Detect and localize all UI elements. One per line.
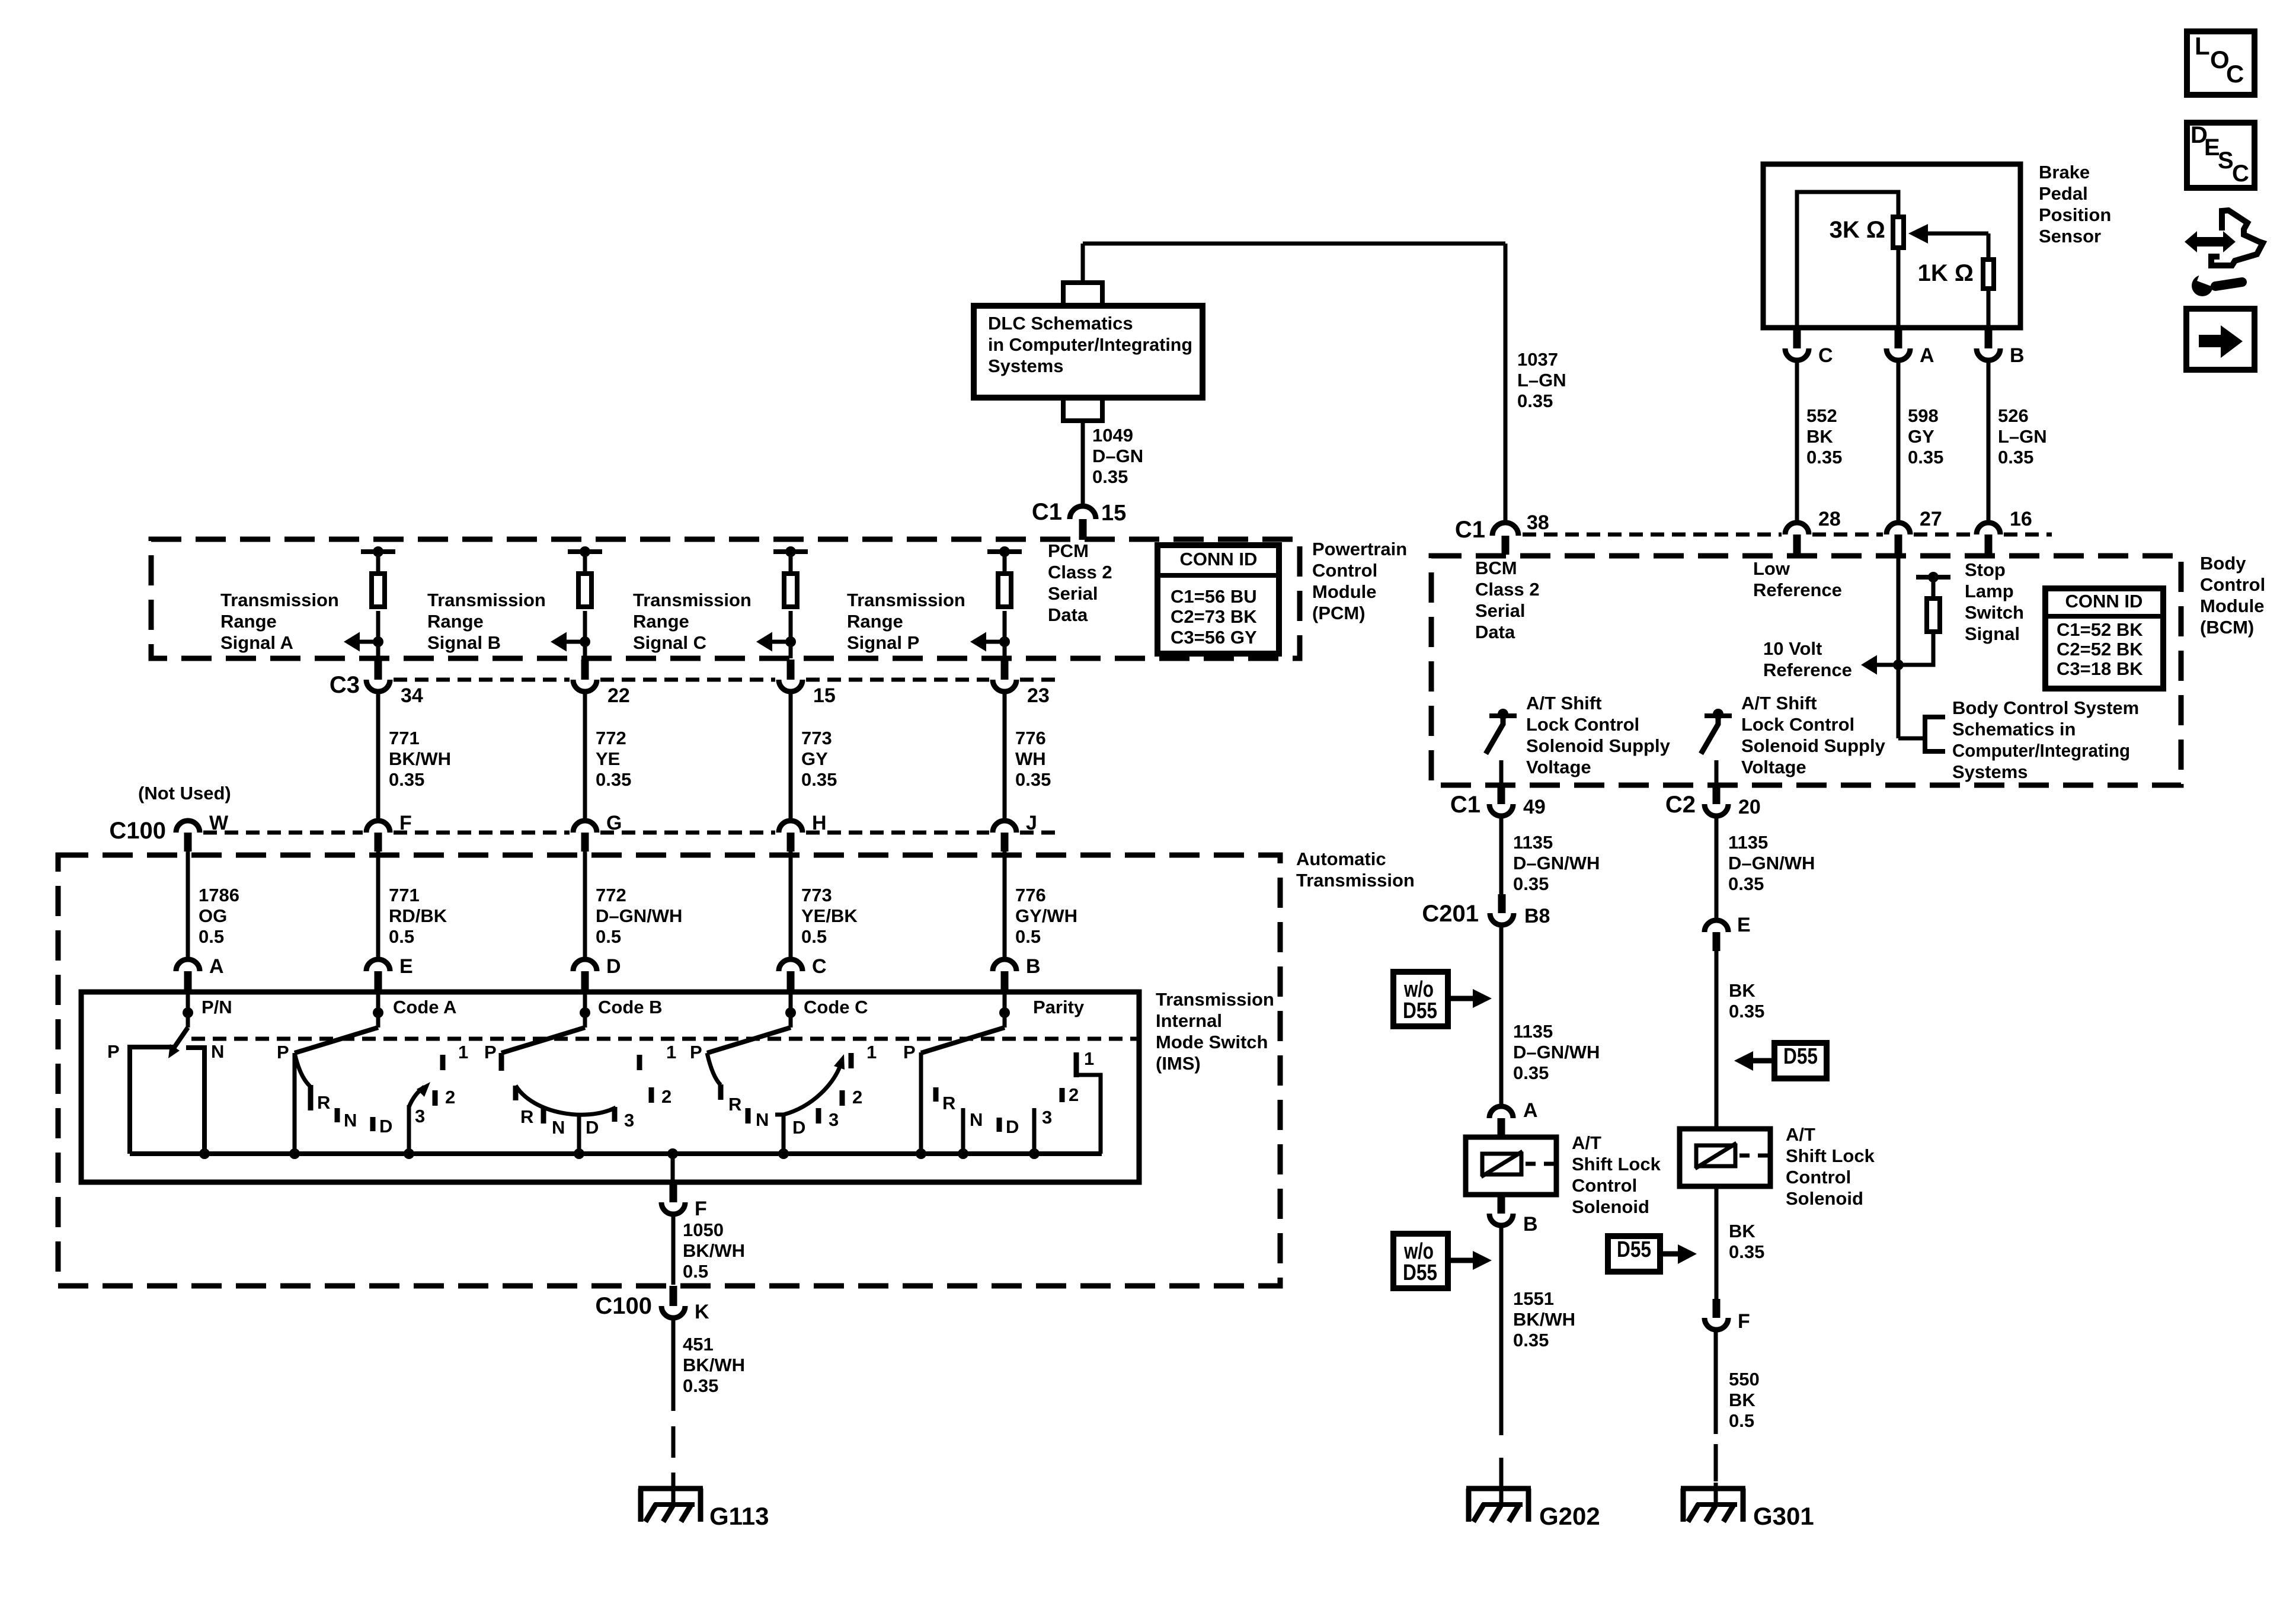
svg-text:E: E bbox=[399, 955, 413, 978]
svg-text:C2=73 BK: C2=73 BK bbox=[1171, 606, 1257, 627]
svg-text:Shift Lock: Shift Lock bbox=[1786, 1145, 1875, 1166]
wire W (C100 to IMS connector) bbox=[186, 852, 190, 959]
wire (C100 K to ground G113) bbox=[671, 1320, 676, 1505]
wire (DLC to PCM C1-15) bbox=[1081, 421, 1085, 507]
connector C100 label bbox=[109, 818, 166, 844]
svg-text:1037: 1037 bbox=[1517, 349, 1558, 370]
bus junction bbox=[778, 1148, 789, 1159]
bus junction bbox=[667, 1148, 678, 1159]
wire C (C3 to C100 row) bbox=[789, 692, 793, 820]
A/T shift lock control solenoid 2 box bbox=[1680, 1129, 1770, 1186]
svg-text:N: N bbox=[970, 1109, 983, 1130]
svg-text:D55: D55 bbox=[1403, 1260, 1437, 1285]
svg-text:DLC Schematics: DLC Schematics bbox=[988, 313, 1133, 334]
svg-text:Code B: Code B bbox=[598, 997, 663, 1017]
wire label 1135 D-GN/WH 0.35 (c) bbox=[1728, 832, 1815, 894]
connector BCM pin 27 bbox=[1886, 508, 1942, 555]
svg-text:0.35: 0.35 bbox=[1513, 1062, 1549, 1083]
svg-text:Control: Control bbox=[1572, 1175, 1637, 1196]
svg-text:N: N bbox=[756, 1109, 769, 1130]
connector C3 pin 23 bbox=[993, 660, 1050, 707]
svg-text:Transmission: Transmission bbox=[633, 590, 752, 610]
svg-text:1: 1 bbox=[666, 1042, 676, 1062]
text Transmission Range Signal C bbox=[633, 590, 752, 653]
svg-text:A: A bbox=[1523, 1099, 1538, 1122]
connector IMS pin B bbox=[993, 955, 1041, 993]
switch A/T shift lock solenoid supply 1 (BCM) bbox=[1486, 709, 1517, 785]
svg-text:YE: YE bbox=[596, 748, 620, 769]
svg-text:Signal B: Signal B bbox=[427, 632, 501, 653]
text A/T Shift Lock Control Solenoid (2) bbox=[1786, 1124, 1875, 1209]
text A/T Shift Lock Control Solenoid (1) bbox=[1572, 1132, 1661, 1217]
svg-text:D55: D55 bbox=[1617, 1237, 1651, 1262]
location icon box (LOC) bbox=[2187, 31, 2255, 95]
svg-text:BCM: BCM bbox=[1475, 558, 1517, 578]
wire (pin B to ground G202) bbox=[1499, 1228, 1504, 1505]
svg-text:L–GN: L–GN bbox=[1517, 370, 1566, 391]
svg-text:BK: BK bbox=[1806, 426, 1833, 447]
IMS common bus wire bbox=[130, 1151, 1102, 1156]
svg-text:773: 773 bbox=[801, 885, 832, 905]
svg-text:D: D bbox=[792, 1117, 805, 1138]
svg-text:C1=56 BU: C1=56 BU bbox=[1171, 586, 1257, 607]
connector C1 pin 15 (PCM) bbox=[1032, 499, 1126, 540]
svg-text:3: 3 bbox=[1042, 1107, 1052, 1128]
wire H (C100 to IMS connector) bbox=[789, 852, 793, 959]
svg-text:38: 38 bbox=[1527, 511, 1549, 534]
svg-text:Data: Data bbox=[1475, 622, 1515, 642]
svg-text:1049: 1049 bbox=[1092, 425, 1133, 446]
svg-text:771: 771 bbox=[389, 728, 420, 748]
connector C100 pin J bbox=[993, 812, 1037, 852]
D55 box (left arrow) bbox=[1734, 1043, 1827, 1078]
connector sensor pin C bbox=[1785, 328, 1833, 367]
svg-text:Lock Control: Lock Control bbox=[1526, 714, 1639, 735]
connector IMS pin C bbox=[779, 955, 827, 993]
svg-text:A: A bbox=[209, 955, 224, 978]
text Transmission Range Signal B bbox=[427, 590, 546, 653]
svg-text:A/T Shift: A/T Shift bbox=[1741, 693, 1817, 713]
svg-text:B: B bbox=[1026, 955, 1041, 978]
svg-text:P/N: P/N bbox=[202, 997, 232, 1017]
svg-text:C: C bbox=[2232, 161, 2249, 187]
svg-text:Signal P: Signal P bbox=[847, 632, 919, 653]
bus junction bbox=[199, 1148, 210, 1159]
connector BCM pin 16 bbox=[1977, 508, 2032, 555]
switch Code C (IMS) bbox=[690, 993, 877, 1154]
PCM pull-up resistor (Transmission Range Signal C) bbox=[773, 546, 808, 658]
connector BCM C2 pin 20 bbox=[1665, 785, 1761, 818]
svg-text:A/T: A/T bbox=[1786, 1124, 1815, 1145]
wire label 1050 BK/WH 0.5 bbox=[683, 1219, 745, 1282]
svg-text:L–GN: L–GN bbox=[1998, 426, 2047, 447]
PCM text PCM Class 2 Serial Data bbox=[1048, 540, 1112, 625]
svg-text:BK/WH: BK/WH bbox=[683, 1355, 745, 1375]
wire label BK 0.35 (a) bbox=[1729, 980, 1764, 1022]
wire label 771 RD/BK 0.5 bbox=[389, 885, 447, 947]
wire label 1551 BK/WH 0.35 bbox=[1513, 1288, 1575, 1350]
svg-text:(PCM): (PCM) bbox=[1312, 603, 1366, 623]
svg-text:K: K bbox=[695, 1301, 709, 1323]
svg-text:0.35: 0.35 bbox=[389, 769, 424, 790]
wire label 772 D–GN/WH 0.5 bbox=[596, 885, 682, 947]
forward arrow icon box bbox=[2186, 309, 2255, 370]
text Transmission Range Signal P bbox=[847, 590, 965, 653]
PCM pull-up resistor (Transmission Range Signal P) bbox=[987, 546, 1022, 658]
svg-text:C: C bbox=[2226, 60, 2244, 88]
svg-text:(Not Used): (Not Used) bbox=[138, 783, 231, 804]
svg-text:1: 1 bbox=[458, 1042, 468, 1062]
svg-text:22: 22 bbox=[607, 684, 630, 707]
svg-text:Transmission: Transmission bbox=[427, 590, 546, 610]
sensor label text bbox=[2039, 162, 2111, 247]
svg-text:C: C bbox=[812, 955, 827, 978]
svg-text:Range: Range bbox=[847, 611, 903, 632]
svg-text:Solenoid Supply: Solenoid Supply bbox=[1526, 735, 1671, 756]
connector BCM C1 pin 38 bbox=[1455, 511, 1549, 555]
svg-text:G301: G301 bbox=[1753, 1502, 1814, 1530]
svg-text:C2=52 BK: C2=52 BK bbox=[2057, 639, 2143, 660]
svg-text:C1=52 BK: C1=52 BK bbox=[2057, 619, 2143, 640]
svg-text:Serial: Serial bbox=[1475, 600, 1525, 621]
svg-text:RD/BK: RD/BK bbox=[389, 905, 447, 926]
svg-text:BK/WH: BK/WH bbox=[1513, 1309, 1575, 1330]
svg-text:Code A: Code A bbox=[393, 997, 456, 1017]
Brake Pedal Position Sensor box bbox=[1763, 164, 2020, 328]
wire label 1135 D-GN/WH 0.35 (a) bbox=[1513, 832, 1600, 894]
svg-text:N: N bbox=[552, 1117, 565, 1138]
D55 box (right arrow) bbox=[1608, 1236, 1697, 1272]
wire (solenoid 2 to pin F) bbox=[1715, 1186, 1719, 1299]
svg-text:23: 23 bbox=[1027, 684, 1050, 707]
connector sensor pin A bbox=[1886, 328, 1934, 367]
svg-text:F: F bbox=[695, 1198, 707, 1220]
connector bracket below DLC box bbox=[1063, 398, 1102, 421]
svg-text:G: G bbox=[606, 812, 622, 834]
wire label 552 BK 0.35 bbox=[1806, 405, 1842, 468]
svg-text:A: A bbox=[1920, 344, 1934, 367]
svg-text:P: P bbox=[277, 1042, 289, 1062]
svg-text:(IMS): (IMS) bbox=[1156, 1053, 1201, 1074]
10 Volt Reference arrow bbox=[1861, 655, 1904, 675]
description icon box (DESC) bbox=[2187, 122, 2255, 188]
ground G301 bbox=[1681, 1489, 1814, 1530]
svg-text:28: 28 bbox=[1818, 508, 1841, 530]
wire label 550 BK 0.5 bbox=[1729, 1369, 1760, 1431]
svg-text:1135: 1135 bbox=[1513, 1021, 1553, 1042]
connector row C3 dotted line bbox=[394, 678, 1055, 682]
svg-text:BK: BK bbox=[1729, 1221, 1755, 1241]
svg-text:C: C bbox=[1818, 344, 1833, 367]
wire (pin 27 to 10V reference node) bbox=[1897, 555, 1901, 738]
svg-text:0.35: 0.35 bbox=[1092, 466, 1128, 487]
svg-text:Class 2: Class 2 bbox=[1475, 579, 1540, 600]
svg-text:Voltage: Voltage bbox=[1741, 757, 1806, 777]
svg-text:OG: OG bbox=[199, 905, 227, 926]
wire label 772 YE 0.35 bbox=[596, 728, 631, 790]
svg-text:3K Ω: 3K Ω bbox=[1830, 217, 1885, 243]
svg-text:D: D bbox=[586, 1117, 599, 1138]
text Body Control System Schematics bbox=[1952, 697, 2139, 782]
BCM text Low Reference bbox=[1753, 558, 1842, 600]
potentiometer wiper arrow bbox=[1908, 224, 1988, 257]
svg-text:(BCM): (BCM) bbox=[2200, 617, 2254, 638]
svg-text:Class 2: Class 2 bbox=[1048, 562, 1112, 582]
w/o D55 box (upper) bbox=[1393, 972, 1492, 1026]
svg-text:Serial: Serial bbox=[1048, 583, 1098, 604]
svg-text:20: 20 bbox=[1738, 796, 1761, 818]
wire label 1135 D-GN/WH 0.35 (b) bbox=[1513, 1021, 1600, 1083]
connector IMS pin F (output) bbox=[661, 1183, 707, 1220]
text Automatic Transmission bbox=[1296, 849, 1415, 891]
wire label 598 GY 0.35 bbox=[1908, 405, 1943, 468]
bus junction bbox=[404, 1148, 414, 1159]
wire label 776 WH 0.35 bbox=[1015, 728, 1051, 790]
wire label 776 GY/WH 0.5 bbox=[1015, 885, 1077, 947]
svg-text:Schematics in: Schematics in bbox=[1952, 719, 2076, 740]
svg-text:J: J bbox=[1026, 812, 1037, 834]
svg-text:16: 16 bbox=[2010, 508, 2032, 530]
svg-text:F: F bbox=[399, 812, 412, 834]
svg-text:S: S bbox=[2218, 148, 2234, 174]
svg-text:0.35: 0.35 bbox=[683, 1375, 718, 1396]
svg-text:1135: 1135 bbox=[1728, 832, 1768, 853]
svg-text:27: 27 bbox=[1920, 508, 1942, 530]
svg-text:P: P bbox=[690, 1042, 702, 1062]
svg-text:2: 2 bbox=[852, 1087, 862, 1108]
svg-text:15: 15 bbox=[1101, 501, 1126, 526]
svg-text:D: D bbox=[1006, 1116, 1019, 1137]
wire A (sensor to BCM) bbox=[1897, 363, 1901, 521]
svg-text:598: 598 bbox=[1908, 405, 1939, 426]
svg-text:Control: Control bbox=[1786, 1167, 1851, 1188]
text A/T Shift Lock Control Solenoid Supply Voltage 2 bbox=[1741, 693, 1886, 777]
wire (resistor to 10V node) bbox=[1898, 634, 1933, 665]
svg-text:2: 2 bbox=[1069, 1084, 1079, 1105]
svg-text:Transmission: Transmission bbox=[220, 590, 339, 610]
IMS internal dotted line bbox=[191, 1037, 1137, 1041]
svg-text:Lock Control: Lock Control bbox=[1741, 714, 1854, 735]
wire F (C100 to IMS connector) bbox=[376, 852, 380, 959]
svg-text:0.35: 0.35 bbox=[1806, 447, 1842, 468]
svg-text:0.35: 0.35 bbox=[1517, 391, 1553, 411]
switch Parity (IMS) bbox=[903, 993, 1101, 1154]
svg-text:C3=18 BK: C3=18 BK bbox=[2057, 658, 2143, 679]
svg-text:0.5: 0.5 bbox=[683, 1261, 708, 1282]
connector pin F (right) bbox=[1705, 1299, 1750, 1333]
svg-text:0.5: 0.5 bbox=[801, 926, 827, 947]
connector bracket above DLC box bbox=[1063, 283, 1102, 306]
svg-text:Computer/Integrating: Computer/Integrating bbox=[1952, 740, 2130, 761]
svg-text:552: 552 bbox=[1806, 405, 1837, 426]
switch P/N (IMS) bbox=[107, 993, 232, 1154]
svg-text:0.5: 0.5 bbox=[596, 926, 621, 947]
svg-text:773: 773 bbox=[801, 728, 832, 748]
svg-text:Powertrain: Powertrain bbox=[1312, 539, 1407, 559]
svg-text:G202: G202 bbox=[1539, 1502, 1600, 1530]
Transmission Internal Mode Switch (IMS) box bbox=[81, 992, 1139, 1182]
svg-text:Range: Range bbox=[427, 611, 484, 632]
connector C3 pin 15 bbox=[779, 660, 836, 707]
svg-text:776: 776 bbox=[1015, 885, 1046, 905]
svg-text:0.35: 0.35 bbox=[1015, 769, 1051, 790]
schematic reference bracket bbox=[1898, 717, 1945, 751]
svg-text:451: 451 bbox=[683, 1334, 714, 1355]
svg-text:CONN ID: CONN ID bbox=[1180, 549, 1258, 569]
svg-text:0.5: 0.5 bbox=[389, 926, 414, 947]
ground G202 bbox=[1466, 1489, 1600, 1530]
connector C100 pin W bbox=[176, 812, 229, 852]
wire J (C100 to IMS connector) bbox=[1003, 852, 1007, 959]
svg-text:526: 526 bbox=[1998, 405, 2029, 426]
svg-text:3: 3 bbox=[624, 1110, 634, 1131]
svg-text:Control: Control bbox=[1312, 560, 1377, 581]
wire label BK 0.35 (b) bbox=[1729, 1221, 1764, 1262]
svg-text:L: L bbox=[2195, 32, 2210, 60]
svg-text:R: R bbox=[728, 1094, 741, 1115]
svg-text:D–GN/WH: D–GN/WH bbox=[1513, 853, 1600, 873]
BCM top connector dotted row bbox=[1523, 533, 2052, 537]
svg-text:Systems: Systems bbox=[1952, 761, 2028, 782]
svg-text:Automatic: Automatic bbox=[1296, 849, 1386, 869]
svg-text:0.35: 0.35 bbox=[1908, 447, 1943, 468]
svg-text:D–GN: D–GN bbox=[1092, 446, 1143, 466]
svg-text:1: 1 bbox=[1084, 1048, 1094, 1069]
svg-text:C1: C1 bbox=[1450, 792, 1480, 818]
svg-text:D–GN/WH: D–GN/WH bbox=[1513, 1042, 1600, 1062]
wire (DLC to BCM class 2 serial data run) bbox=[1083, 244, 1505, 524]
svg-text:0.5: 0.5 bbox=[199, 926, 224, 947]
svg-text:Parity: Parity bbox=[1033, 997, 1085, 1017]
svg-text:A/T Shift: A/T Shift bbox=[1526, 693, 1601, 713]
svg-text:P: P bbox=[107, 1041, 120, 1062]
svg-text:0.35: 0.35 bbox=[1728, 873, 1764, 894]
svg-text:0.35: 0.35 bbox=[1513, 873, 1549, 894]
svg-text:Transmission: Transmission bbox=[847, 590, 965, 610]
svg-text:0.35: 0.35 bbox=[1729, 1001, 1764, 1022]
double-arrow connector-end-view icon bbox=[2185, 210, 2263, 296]
A/T shift lock control solenoid 1 box bbox=[1466, 1137, 1556, 1195]
svg-text:Mode Switch: Mode Switch bbox=[1156, 1032, 1268, 1052]
wire B (C3 to C100 row) bbox=[583, 692, 587, 820]
svg-text:PCM: PCM bbox=[1048, 540, 1089, 561]
svg-text:A/T: A/T bbox=[1572, 1132, 1601, 1153]
svg-text:W: W bbox=[209, 812, 229, 834]
Automatic Transmission dashed box bbox=[58, 855, 1280, 1286]
svg-text:1786: 1786 bbox=[199, 885, 239, 905]
connector C100 pin K bbox=[595, 1286, 709, 1323]
resistor 1K bbox=[1918, 260, 1994, 328]
connector C100 pin F bbox=[366, 812, 412, 852]
switch A/T shift lock solenoid supply 2 (BCM) bbox=[1701, 709, 1732, 785]
svg-text:R: R bbox=[942, 1093, 955, 1113]
svg-text:P: P bbox=[484, 1042, 497, 1062]
PCM label text bbox=[1312, 539, 1407, 623]
wire label 1786 OG 0.5 bbox=[199, 885, 239, 947]
switch Code B (IMS) bbox=[484, 993, 676, 1154]
svg-text:BK: BK bbox=[1729, 980, 1755, 1001]
svg-text:0.5: 0.5 bbox=[1729, 1410, 1754, 1431]
svg-text:Body Control System: Body Control System bbox=[1952, 697, 2139, 718]
svg-text:H: H bbox=[812, 812, 827, 834]
BCM internal node bar (stop lamp) bbox=[1916, 572, 1950, 596]
svg-text:Switch: Switch bbox=[1965, 602, 2024, 623]
BCM label text bbox=[2200, 553, 2265, 638]
w/o D55 box (lower) bbox=[1393, 1234, 1492, 1288]
svg-text:2: 2 bbox=[661, 1086, 671, 1107]
wire label 773 GY 0.35 bbox=[801, 728, 837, 790]
svg-text:772: 772 bbox=[596, 728, 626, 748]
IMS label text bbox=[1156, 989, 1274, 1074]
svg-text:in Computer/Integrating: in Computer/Integrating bbox=[988, 334, 1192, 355]
svg-text:B8: B8 bbox=[1524, 905, 1550, 927]
svg-text:Solenoid: Solenoid bbox=[1786, 1188, 1863, 1209]
wire label 773 YE/BK 0.5 bbox=[801, 885, 858, 947]
svg-text:D55: D55 bbox=[1403, 998, 1437, 1023]
svg-text:34: 34 bbox=[401, 684, 423, 707]
svg-text:3: 3 bbox=[415, 1106, 425, 1126]
PCM internal output arrow (Signal B) bbox=[551, 632, 590, 652]
svg-text:Range: Range bbox=[633, 611, 689, 632]
svg-text:Brake: Brake bbox=[2039, 162, 2090, 183]
bus junction bbox=[958, 1148, 968, 1159]
svg-text:0.35: 0.35 bbox=[801, 769, 837, 790]
bus junction bbox=[574, 1148, 584, 1159]
svg-text:R: R bbox=[317, 1092, 330, 1113]
svg-text:Reference: Reference bbox=[1753, 580, 1842, 600]
svg-text:C2: C2 bbox=[1665, 792, 1696, 818]
bus junction bbox=[1029, 1148, 1040, 1159]
connector IMS pin E bbox=[366, 955, 413, 993]
svg-text:772: 772 bbox=[596, 885, 626, 905]
wire (pin F to C100 pin K) bbox=[671, 1217, 676, 1285]
bus junction bbox=[289, 1148, 300, 1159]
wire label 451 BK/WH 0.35 bbox=[683, 1334, 745, 1396]
wire C (sensor to BCM) bbox=[1795, 363, 1799, 521]
svg-text:C100: C100 bbox=[109, 818, 166, 844]
svg-text:F: F bbox=[1738, 1310, 1750, 1333]
wire (C2-20 to pin E) bbox=[1715, 818, 1719, 918]
svg-text:N: N bbox=[211, 1041, 224, 1062]
svg-text:Body: Body bbox=[2200, 553, 2246, 574]
stop lamp switch signal resistor bbox=[1927, 598, 1940, 632]
wire label 771 BK/WH 0.35 bbox=[389, 728, 451, 790]
svg-text:Low: Low bbox=[1753, 558, 1790, 579]
svg-text:0.35: 0.35 bbox=[1998, 447, 2033, 468]
connector solenoid pin B bbox=[1489, 1195, 1538, 1235]
wire A (C3 to C100 row) bbox=[376, 692, 380, 820]
potentiometer 3K bbox=[1830, 217, 1904, 328]
svg-text:Voltage: Voltage bbox=[1526, 757, 1591, 777]
svg-text:1551: 1551 bbox=[1513, 1288, 1554, 1309]
svg-text:N: N bbox=[344, 1110, 357, 1131]
svg-text:Signal: Signal bbox=[1965, 623, 2020, 644]
svg-text:Solenoid Supply: Solenoid Supply bbox=[1741, 735, 1886, 756]
svg-text:0.35: 0.35 bbox=[1729, 1241, 1764, 1262]
switch Code A (IMS) bbox=[277, 993, 468, 1154]
wire P (C3 to C100 row) bbox=[1003, 692, 1007, 820]
svg-text:C3=56 GY: C3=56 GY bbox=[1171, 627, 1257, 648]
svg-text:49: 49 bbox=[1523, 796, 1546, 818]
PCM CONN ID table bbox=[1157, 545, 1279, 654]
svg-text:B: B bbox=[2010, 344, 2025, 367]
svg-text:D–GN/WH: D–GN/WH bbox=[1728, 853, 1815, 873]
svg-text:Module: Module bbox=[1312, 581, 1377, 602]
svg-text:GY: GY bbox=[801, 748, 828, 769]
svg-text:D: D bbox=[379, 1116, 392, 1137]
wire (C1-49 to C201) bbox=[1499, 818, 1504, 894]
sensor internal wire loop bbox=[1797, 192, 1898, 328]
